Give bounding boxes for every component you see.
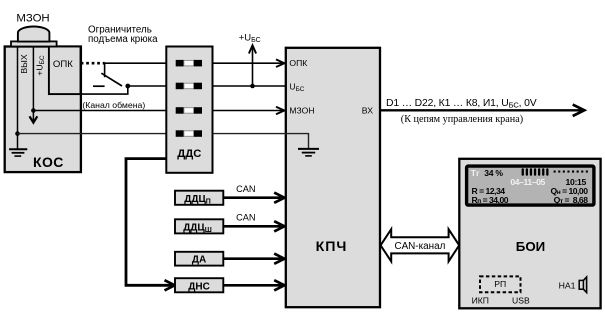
block ДА bbox=[175, 252, 223, 266]
svg-text:Тг: Тг bbox=[471, 168, 480, 178]
node МЗОН junction bbox=[31, 108, 36, 113]
ОПК contact sub-box bbox=[49, 47, 81, 95]
wire ВЫХ vertical with down arrow bbox=[32, 47, 34, 122]
svg-text:ДНС: ДНС bbox=[188, 281, 210, 292]
wire ОПК to ДДС bbox=[104, 62, 167, 64]
svg-text:Qт = 8,68: Qт = 8,68 bbox=[554, 195, 589, 205]
svg-text:МЗОН: МЗОН bbox=[16, 12, 49, 24]
svg-text:(К цепям управления крана): (К цепям управления крана) bbox=[401, 114, 523, 125]
svg-text:ВЫХ: ВЫХ bbox=[19, 54, 29, 73]
node switch junction bbox=[125, 84, 130, 89]
wire 0V to ground in КПЧ bbox=[213, 134, 309, 149]
wire 0V vertical in КОС bbox=[17, 47, 19, 149]
svg-text:CAN-канал: CAN-канал bbox=[394, 241, 445, 252]
wire UБС to КПЧ bbox=[213, 85, 288, 87]
thick arrow ДДЦп to КПЧ bbox=[223, 196, 283, 199]
connector pair 1 bbox=[176, 60, 202, 67]
svg-text:04–11–05: 04–11–05 bbox=[510, 177, 545, 187]
bus wire ВХ output bbox=[381, 109, 583, 111]
connector pair 4 bbox=[176, 130, 202, 137]
ground in КОС bbox=[9, 149, 27, 156]
switch blade bbox=[101, 73, 122, 86]
thick arrow ДА to КПЧ bbox=[223, 257, 283, 260]
svg-text:КОС: КОС bbox=[33, 154, 64, 170]
switch ОПК terminal bbox=[104, 62, 106, 77]
block ДДЦш bbox=[175, 219, 223, 233]
thick wire ДДС to ДНС bbox=[126, 159, 173, 286]
svg-text:ДА: ДА bbox=[192, 255, 206, 266]
block КОС bbox=[5, 47, 81, 173]
thick arrow ДНС to КПЧ bbox=[223, 284, 283, 287]
svg-text:Rп = 34,00: Rп = 34,00 bbox=[472, 195, 509, 205]
svg-text:БОИ: БОИ bbox=[516, 239, 545, 254]
svg-text:ИКП: ИКП bbox=[472, 296, 489, 306]
БОИ display screen bbox=[467, 166, 594, 205]
switch fixed contact bbox=[93, 85, 105, 87]
РП dashed box bbox=[480, 276, 521, 292]
node +UБС junction bbox=[250, 84, 255, 89]
block ДДС bbox=[166, 47, 212, 173]
svg-text:РП: РП bbox=[494, 279, 506, 289]
svg-text:34 %: 34 % bbox=[484, 168, 503, 178]
wire UБС to ДДС bbox=[128, 85, 167, 87]
svg-text:ДДС: ДДС bbox=[177, 148, 201, 160]
svg-text:ОПК: ОПК bbox=[289, 58, 307, 68]
connector pair 2 bbox=[176, 83, 202, 90]
block ДНС bbox=[175, 278, 223, 292]
speaker icon НА1 bbox=[579, 277, 586, 293]
connector pair 3 bbox=[176, 107, 202, 114]
svg-text:КПЧ: КПЧ bbox=[316, 239, 348, 255]
svg-text:CAN: CAN bbox=[236, 184, 255, 194]
svg-text:(Канал обмена): (Канал обмена) bbox=[82, 100, 145, 110]
wire МЗОН to ДДС bbox=[33, 110, 166, 112]
wire ОПК to КПЧ with arrow bbox=[213, 62, 284, 64]
svg-text:USB: USB bbox=[512, 296, 530, 306]
wire МЗОН to КПЧ with arrow bbox=[213, 110, 284, 112]
block ДДЦп bbox=[175, 191, 223, 205]
screen dot scale bbox=[554, 171, 588, 173]
svg-text:МЗОН: МЗОН bbox=[289, 105, 314, 115]
svg-text:ВХ: ВХ bbox=[362, 105, 373, 115]
wire канал обмена bbox=[81, 86, 128, 94]
wire 0V to ДДС bbox=[18, 133, 167, 135]
block КПЧ bbox=[286, 48, 380, 307]
svg-text:CAN: CAN bbox=[236, 213, 255, 223]
node 0V junction bbox=[15, 131, 20, 136]
mechanical link dotted line bbox=[81, 62, 105, 65]
ground in КПЧ bbox=[298, 149, 319, 156]
CAN-канал double arrow bbox=[381, 229, 460, 261]
supply +UБС stub with up arrow bbox=[252, 47, 254, 87]
МЗОН base plate bbox=[11, 41, 57, 46]
svg-text:ОПК: ОПК bbox=[53, 59, 73, 70]
svg-text:подъема крюка: подъема крюка bbox=[88, 34, 158, 45]
screen bar graph bbox=[522, 168, 549, 176]
block БОИ bbox=[459, 159, 600, 308]
МЗОН dome bbox=[18, 26, 50, 41]
thick arrow ДДЦш to КПЧ bbox=[223, 225, 283, 228]
svg-text:НА1: НА1 bbox=[559, 280, 576, 290]
